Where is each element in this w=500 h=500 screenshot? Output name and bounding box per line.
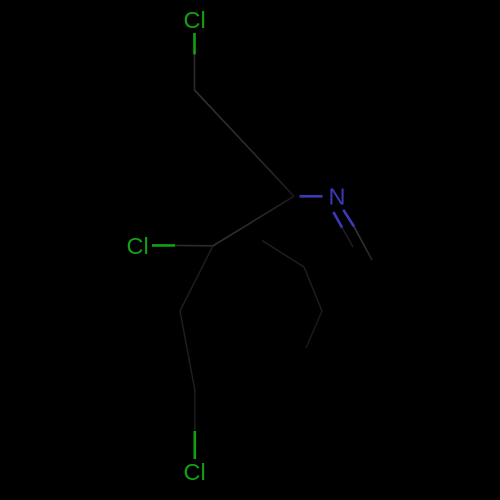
bond N=C2 double, main line blue half	[343, 210, 354, 227]
wire right-side segment lower	[304, 267, 322, 311]
bond Cl1-C (green half)	[193, 33, 196, 55]
bond C-Cl3 (green half)	[194, 431, 197, 459]
svg-text:Cl: Cl	[184, 7, 206, 33]
wire right-side segment upper	[262, 241, 304, 268]
svg-text:Cl: Cl	[184, 459, 206, 485]
bond Cl2-C (green half)	[152, 244, 175, 247]
bond C-Cl3 (carbon half)	[194, 391, 196, 431]
bond Cl1-C (carbon half)	[194, 55, 196, 91]
bond C-N (blue)	[300, 195, 323, 198]
svg-text:Cl: Cl	[127, 233, 149, 259]
wire chain to C-Cl3	[180, 311, 195, 391]
svg-text:N: N	[329, 184, 346, 210]
wire faint stub below right-side segment	[306, 311, 322, 348]
bond Cl2-C (carbon half)	[175, 244, 213, 246]
bond N=C2 double, inner line blue	[333, 212, 342, 228]
bond N=C2 double, main line carbon half	[354, 227, 372, 261]
bond N=C2 double, inner line carbon half	[342, 228, 353, 247]
wire C-C diagonal from B up to central vertex	[213, 196, 294, 246]
wire C-C long diagonal to central vertex	[195, 90, 295, 196]
wire B down-left chain	[180, 246, 213, 311]
